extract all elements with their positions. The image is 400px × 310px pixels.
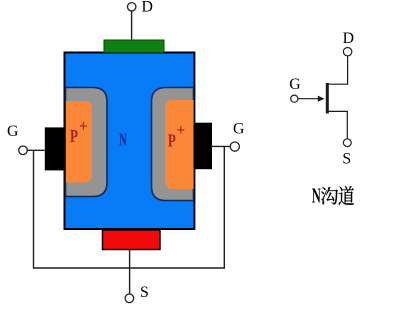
svg-text:N: N bbox=[119, 131, 127, 150]
svg-text:G: G bbox=[289, 76, 300, 93]
svg-text:G: G bbox=[7, 123, 18, 140]
svg-text:S: S bbox=[342, 151, 351, 168]
svg-text:G: G bbox=[233, 121, 244, 138]
svg-text:N: N bbox=[312, 184, 321, 207]
svg-text:P: P bbox=[168, 132, 176, 152]
svg-text:D: D bbox=[142, 0, 153, 16]
svg-text:+: + bbox=[79, 118, 88, 135]
svg-text:D: D bbox=[343, 30, 354, 47]
svg-text:+: + bbox=[176, 122, 185, 139]
svg-text:P: P bbox=[70, 127, 78, 147]
svg-text:S: S bbox=[140, 284, 149, 301]
